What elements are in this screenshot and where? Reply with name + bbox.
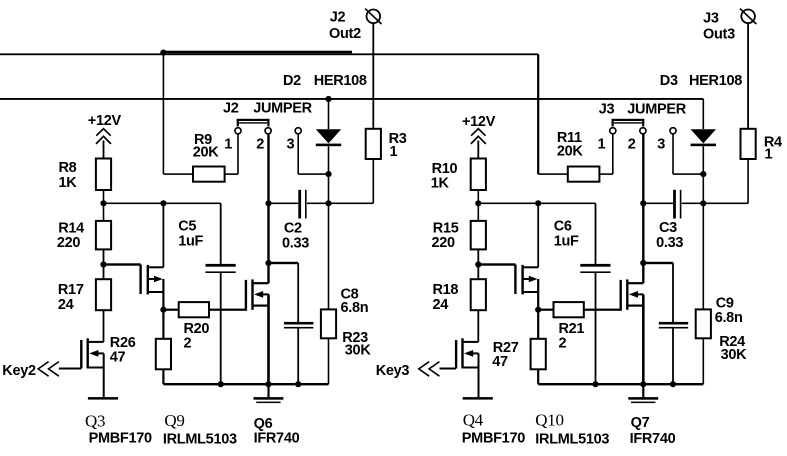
svg-text:C5: C5 bbox=[178, 219, 196, 235]
label 0.33 bbox=[656, 235, 683, 251]
label Out2 bbox=[329, 26, 361, 42]
wire node to R20 bbox=[163, 309, 178, 311]
wire node to R17 bbox=[103, 265, 105, 280]
label 1 bbox=[765, 147, 773, 163]
svg-text:1K: 1K bbox=[59, 175, 78, 191]
svg-text:2: 2 bbox=[559, 336, 567, 352]
wire R27 to bottom rail bbox=[537, 369, 539, 384]
svg-text:PMBF170: PMBF170 bbox=[89, 431, 152, 447]
resistor R24 bbox=[696, 309, 711, 338]
svg-text:+12V: +12V bbox=[462, 114, 496, 130]
wire node to R23 bbox=[328, 203, 330, 309]
transistor Q7 (IFR740) bbox=[620, 279, 644, 310]
junction rail/C9 bbox=[670, 381, 676, 387]
wire C9 bottom lead bbox=[672, 329, 674, 385]
wire R8 to R14 bbox=[103, 203, 105, 221]
junction rail/C8 bbox=[295, 381, 301, 387]
label C6 bbox=[554, 219, 572, 235]
capacitor C5 bbox=[206, 264, 236, 273]
label IRLML5103 bbox=[163, 432, 237, 448]
wire top rail thick segment bbox=[163, 51, 352, 54]
label C8 bbox=[341, 287, 359, 303]
label C3 bbox=[659, 220, 677, 236]
connector J3 Out3 terminal bbox=[740, 9, 756, 24]
wire C2 right lead bbox=[307, 203, 329, 205]
wire C3 right lead bbox=[682, 203, 704, 205]
jumper J3 pin 2 circle bbox=[640, 128, 646, 134]
wire R15 bottom lead bbox=[477, 249, 479, 264]
wire D2 cathode to node bbox=[328, 146, 330, 174]
label R26 bbox=[110, 335, 136, 351]
transistor Q3 (PMBF170) bbox=[80, 338, 104, 368]
label 1uF bbox=[554, 234, 579, 250]
wire Q3 source to ground bbox=[103, 353, 105, 397]
label 2 bbox=[256, 136, 264, 152]
svg-text:2: 2 bbox=[628, 136, 636, 152]
label +12V bbox=[88, 113, 122, 129]
wire R10 bottom lead bbox=[478, 190, 480, 203]
label 1 bbox=[390, 144, 398, 160]
label 220 bbox=[57, 235, 81, 251]
label R10 bbox=[432, 161, 458, 177]
junction D3 cathode / pin3 bbox=[700, 171, 706, 177]
svg-text:+12V: +12V bbox=[88, 113, 122, 129]
wire C5 bottom lead bbox=[220, 273, 222, 384]
label JUMPER bbox=[627, 101, 686, 117]
svg-text:HER108: HER108 bbox=[689, 73, 742, 89]
wire node to R27 bbox=[537, 310, 539, 339]
label C5 bbox=[178, 219, 196, 235]
svg-text:Key2: Key2 bbox=[2, 363, 36, 379]
junction at column B bbox=[535, 200, 541, 206]
resistor R20 bbox=[179, 302, 209, 317]
label R15 bbox=[433, 221, 459, 237]
capacitor C2 bbox=[298, 190, 306, 219]
wire D3 cathode to node bbox=[703, 146, 705, 174]
svg-text:Q4: Q4 bbox=[463, 411, 484, 430]
wire R10 to R15 bbox=[478, 203, 480, 221]
label J3 bbox=[599, 101, 615, 117]
wire second rail bbox=[0, 98, 703, 100]
svg-text:1: 1 bbox=[224, 136, 232, 152]
wire R18 to Q4 drain bbox=[477, 310, 479, 342]
svg-text:C2: C2 bbox=[284, 221, 302, 237]
wire C8 bottom lead bbox=[297, 329, 299, 385]
svg-text:24: 24 bbox=[58, 297, 74, 313]
svg-text:Out2: Out2 bbox=[329, 26, 361, 42]
ground under Q4 bbox=[463, 397, 493, 400]
svg-text:0.33: 0.33 bbox=[656, 235, 683, 251]
wire pin 3 lead bbox=[297, 134, 328, 175]
label D2 bbox=[283, 73, 301, 89]
svg-text:1: 1 bbox=[390, 144, 398, 160]
label R21 bbox=[559, 321, 585, 337]
label R18 bbox=[433, 282, 459, 298]
wire R9 left lead bbox=[163, 54, 193, 175]
wire branch to C8 bbox=[269, 262, 300, 322]
jumper J3 pin 3 circle bbox=[670, 128, 676, 134]
+12V power symbol bbox=[471, 129, 486, 159]
label D3 bbox=[660, 73, 678, 89]
junction R10/R14 node bbox=[475, 200, 481, 206]
wire R26 to bottom rail bbox=[162, 369, 164, 384]
junction R14/gate node bbox=[100, 261, 106, 267]
wire top rail drop to right half bbox=[537, 54, 539, 174]
jumper J3 pin 1 circle bbox=[610, 128, 616, 134]
label R14 bbox=[58, 221, 84, 237]
label JUMPER bbox=[253, 101, 312, 117]
jumper J2 cap bracket bbox=[237, 119, 270, 127]
label 2 bbox=[628, 136, 636, 152]
label 24 bbox=[58, 297, 74, 313]
junction at column B bbox=[160, 200, 166, 206]
connector J2 Out2 terminal bbox=[365, 9, 381, 24]
wire Q7 source lead down bbox=[642, 294, 645, 384]
label 0.33 bbox=[282, 235, 309, 251]
wire Q9 drain lead up bbox=[163, 203, 165, 267]
label Out3 bbox=[703, 27, 735, 43]
wire Q4 source to ground bbox=[478, 353, 480, 397]
svg-text:30K: 30K bbox=[345, 343, 372, 359]
svg-text:IRLML5103: IRLML5103 bbox=[163, 432, 237, 448]
label R23 bbox=[342, 330, 368, 346]
wire terminal J3 to R lead bbox=[747, 24, 749, 129]
wire pin 1 lead bbox=[225, 134, 239, 175]
label HER108 bbox=[314, 73, 367, 89]
wire node to R18 bbox=[477, 265, 479, 280]
junction C/R3 node bbox=[325, 200, 331, 206]
label 1 bbox=[224, 136, 232, 152]
wire node to R24 bbox=[703, 203, 705, 309]
svg-text:IFR740: IFR740 bbox=[630, 431, 676, 447]
label 6.8n bbox=[715, 310, 743, 326]
jumper J2 pin 1 circle bbox=[235, 128, 241, 134]
label R24 bbox=[719, 334, 745, 350]
label Q6 bbox=[254, 416, 273, 432]
label 2 bbox=[184, 336, 192, 352]
svg-text:C6: C6 bbox=[554, 219, 572, 235]
junction Q10 source node bbox=[535, 307, 541, 313]
junction D2 cathode / pin3 bbox=[325, 171, 331, 177]
jumper J3 cap bracket bbox=[612, 119, 645, 127]
resistor R3 bbox=[366, 129, 381, 159]
svg-text:Q3: Q3 bbox=[85, 412, 105, 431]
wire Key3 to Q4 gate bbox=[440, 368, 457, 370]
svg-text:IFR740: IFR740 bbox=[254, 431, 300, 447]
junction top rail / column B bbox=[160, 50, 166, 56]
resistor R8 bbox=[96, 159, 111, 191]
diode D3 anode lead bbox=[703, 99, 705, 129]
transistor Q10 (IRLML5103) bbox=[514, 265, 538, 295]
resistor R9 bbox=[193, 167, 225, 182]
resistor R27 bbox=[531, 339, 546, 370]
svg-text:R17: R17 bbox=[58, 282, 84, 298]
resistor R26 bbox=[156, 339, 171, 370]
label R4 bbox=[764, 135, 782, 151]
label 3 bbox=[657, 136, 665, 152]
junction C/R4 node bbox=[700, 200, 706, 206]
svg-text:J3: J3 bbox=[599, 101, 615, 117]
label R17 bbox=[58, 282, 84, 298]
wire bottom rail bbox=[163, 383, 328, 385]
transistor Q9 (IRLML5103) bbox=[139, 265, 163, 295]
wire R23 to bottom rail bbox=[328, 338, 330, 384]
wire pin 3 lead bbox=[672, 134, 703, 175]
wire R11 left lead bbox=[537, 54, 567, 175]
ground under Q3 bbox=[88, 397, 118, 400]
wire C5 top lead bbox=[220, 203, 222, 264]
Key2 input chevrons bbox=[38, 362, 59, 377]
ground under Q7 bbox=[628, 384, 658, 403]
label Q4 bbox=[463, 411, 484, 430]
label PMBF170 bbox=[89, 431, 152, 447]
junction Q9 source node bbox=[160, 307, 166, 313]
wire terminal J2 to R lead bbox=[372, 24, 374, 129]
svg-text:6.8n: 6.8n bbox=[341, 300, 369, 316]
ground under Q6 bbox=[254, 384, 284, 403]
svg-text:20K: 20K bbox=[193, 145, 220, 161]
wire Q9 source/body lead down bbox=[162, 279, 164, 310]
diode D3 bbox=[691, 129, 716, 146]
label 1K bbox=[431, 175, 450, 191]
wire node to C wire bbox=[703, 174, 705, 203]
+12V power symbol bbox=[96, 129, 111, 159]
label J2 bbox=[223, 101, 239, 117]
label 1 bbox=[598, 136, 606, 152]
diode D2 anode lead bbox=[328, 99, 330, 129]
label PMBF170 bbox=[462, 431, 525, 447]
wire C6 top lead bbox=[595, 203, 597, 264]
jumper J2 pin 3 circle bbox=[295, 128, 301, 134]
wire Key2 to Q3 gate bbox=[59, 368, 81, 370]
junction C8 branch on pin2 line bbox=[265, 260, 271, 266]
label IFR740 bbox=[254, 431, 300, 447]
svg-text:0.33: 0.33 bbox=[282, 235, 309, 251]
diode D2 bbox=[316, 129, 341, 146]
label C2 bbox=[284, 221, 302, 237]
wire node to R26 bbox=[162, 310, 164, 339]
wire bottom rail bbox=[538, 383, 703, 385]
wire Q6 source lead down bbox=[267, 294, 270, 384]
transistor Q6 (IFR740) bbox=[245, 279, 269, 310]
junction rail/Q6 source bbox=[265, 381, 271, 387]
wire R17 to Q3 drain bbox=[103, 310, 105, 342]
svg-text:IRLML5103: IRLML5103 bbox=[535, 432, 609, 448]
wire C3 left lead bbox=[643, 203, 673, 205]
svg-text:2: 2 bbox=[256, 136, 264, 152]
svg-text:1: 1 bbox=[598, 136, 606, 152]
label R11 bbox=[557, 130, 582, 146]
label 220 bbox=[432, 235, 456, 251]
junction rail/Q7 source bbox=[640, 381, 646, 387]
label IRLML5103 bbox=[535, 432, 609, 448]
label 1uF bbox=[178, 234, 203, 250]
wire R4 bottom lead bbox=[703, 159, 749, 204]
svg-text:3: 3 bbox=[287, 136, 295, 152]
svg-text:D3: D3 bbox=[660, 73, 678, 89]
wire pin 1 lead bbox=[599, 134, 613, 175]
label 47 bbox=[110, 350, 126, 366]
svg-text:C3: C3 bbox=[659, 220, 677, 236]
resistor R10 bbox=[471, 159, 486, 191]
svg-text:Q7: Q7 bbox=[631, 415, 650, 431]
svg-text:1uF: 1uF bbox=[178, 234, 203, 250]
capacitor C3 bbox=[673, 190, 681, 219]
wire R8 bottom lead bbox=[103, 190, 105, 203]
label R8 bbox=[59, 160, 77, 176]
svg-text:3: 3 bbox=[657, 136, 665, 152]
svg-text:1: 1 bbox=[765, 147, 773, 163]
label R27 bbox=[493, 340, 519, 356]
wire Q10 drain lead up bbox=[537, 203, 539, 267]
svg-text:2: 2 bbox=[184, 336, 192, 352]
wire R21 to Q gate bbox=[584, 309, 621, 311]
resistor R23 bbox=[321, 309, 336, 338]
Key3 input chevrons bbox=[419, 362, 440, 377]
wire node to C5 top bbox=[104, 203, 221, 205]
svg-text:24: 24 bbox=[433, 297, 449, 313]
wire R3 bottom lead bbox=[329, 159, 375, 204]
wire pin 2 lead down bbox=[267, 134, 269, 283]
label 24 bbox=[433, 297, 449, 313]
svg-text:Q10: Q10 bbox=[535, 411, 563, 430]
svg-text:Q9: Q9 bbox=[164, 411, 184, 430]
capacitor C9 bbox=[659, 322, 688, 329]
transistor Q4 (PMBF170) bbox=[455, 338, 479, 368]
label HER108 bbox=[689, 73, 742, 89]
junction C8 branch on pin2 line bbox=[640, 260, 646, 266]
label R9 bbox=[194, 132, 212, 148]
svg-text:HER108: HER108 bbox=[314, 73, 367, 89]
wire C2 left lead bbox=[269, 203, 299, 205]
svg-text:20K: 20K bbox=[557, 144, 584, 160]
junction rail/C6 bbox=[592, 381, 598, 387]
junction C2 left node bbox=[265, 200, 271, 206]
label 1K bbox=[59, 175, 78, 191]
resistor R14 bbox=[96, 221, 111, 250]
resistor R17 bbox=[96, 279, 111, 310]
wire C6 bottom lead bbox=[595, 273, 597, 384]
label Q10 bbox=[535, 411, 563, 430]
svg-text:J2: J2 bbox=[223, 101, 239, 117]
wire top rail (thin) bbox=[0, 53, 538, 55]
wire pin 2 lead down bbox=[642, 134, 644, 283]
svg-text:JUMPER: JUMPER bbox=[627, 101, 686, 117]
junction R8/R14 node bbox=[100, 200, 106, 206]
label 20K bbox=[193, 145, 220, 161]
resistor R18 bbox=[471, 279, 486, 310]
label 30K bbox=[345, 343, 372, 359]
label J3 bbox=[703, 10, 719, 26]
label 2 bbox=[559, 336, 567, 352]
label 3 bbox=[287, 136, 295, 152]
label C9 bbox=[716, 296, 734, 312]
resistor R21 bbox=[554, 302, 584, 317]
svg-text:Out3: Out3 bbox=[703, 27, 735, 43]
svg-text:R18: R18 bbox=[433, 282, 459, 298]
label J2 bbox=[330, 10, 346, 26]
svg-text:R8: R8 bbox=[59, 160, 77, 176]
label R3 bbox=[389, 131, 407, 147]
wire branch to C9 bbox=[643, 262, 674, 322]
capacitor C8 bbox=[284, 322, 313, 329]
label IFR740 bbox=[630, 431, 676, 447]
label 30K bbox=[721, 347, 748, 363]
junction C3 left node bbox=[640, 200, 646, 206]
label Q3 bbox=[85, 412, 105, 431]
svg-text:Key3: Key3 bbox=[376, 363, 410, 379]
label Key2 bbox=[2, 363, 36, 379]
resistor R11 bbox=[568, 167, 600, 182]
label Q7 bbox=[631, 415, 650, 431]
label 47 bbox=[492, 354, 508, 370]
label Key3 bbox=[376, 363, 410, 379]
label R20 bbox=[184, 321, 210, 337]
svg-text:JUMPER: JUMPER bbox=[253, 101, 312, 117]
label 6.8n bbox=[341, 300, 369, 316]
label +12V bbox=[462, 114, 496, 130]
wire node to R21 bbox=[538, 309, 553, 311]
wire node to C wire bbox=[328, 174, 330, 203]
junction R15/gate node bbox=[475, 261, 481, 267]
svg-text:220: 220 bbox=[57, 235, 81, 251]
label Q9 bbox=[164, 411, 184, 430]
svg-text:30K: 30K bbox=[721, 347, 748, 363]
svg-text:220: 220 bbox=[432, 235, 456, 251]
wire R24 to bottom rail bbox=[703, 338, 705, 384]
junction rail/C5 bbox=[218, 381, 224, 387]
capacitor C6 bbox=[580, 264, 610, 273]
svg-text:47: 47 bbox=[110, 350, 126, 366]
svg-text:6.8n: 6.8n bbox=[715, 310, 743, 326]
svg-text:J3: J3 bbox=[703, 10, 719, 26]
jumper J2 pin 2 circle bbox=[265, 128, 271, 134]
junction second rail / D2 bbox=[325, 96, 331, 102]
wire R20 to Q gate bbox=[209, 309, 246, 311]
svg-text:D2: D2 bbox=[283, 73, 301, 89]
resistor R4 bbox=[741, 129, 756, 159]
wire gate wire to Q9 bbox=[104, 263, 141, 265]
wire node to C5 top bbox=[478, 203, 595, 205]
wire R14 bottom lead bbox=[103, 249, 105, 264]
svg-text:47: 47 bbox=[492, 354, 508, 370]
wire gate wire to Q10 bbox=[478, 263, 515, 265]
svg-text:J2: J2 bbox=[330, 10, 346, 26]
svg-text:1uF: 1uF bbox=[554, 234, 579, 250]
svg-text:1K: 1K bbox=[431, 175, 450, 191]
wire Q10 source/body lead down bbox=[537, 279, 539, 310]
label 20K bbox=[557, 144, 584, 160]
resistor R15 bbox=[471, 221, 486, 250]
svg-text:PMBF170: PMBF170 bbox=[462, 431, 525, 447]
